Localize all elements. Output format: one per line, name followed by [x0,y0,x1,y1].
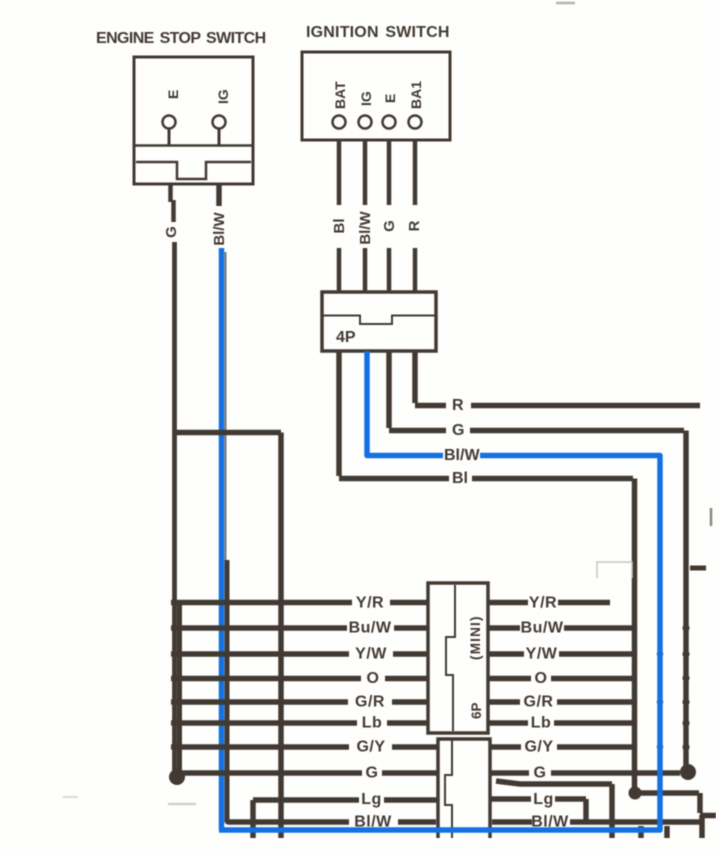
svg-text:G/Y: G/Y [524,739,553,756]
svg-text:BAT: BAT [332,81,348,109]
svg-text:Bl: Bl [331,219,348,234]
svg-text:G/Y: G/Y [356,739,385,756]
svg-text:E: E [165,90,181,99]
svg-text:Bl/W: Bl/W [531,814,569,831]
svg-text:Y/W: Y/W [355,646,387,663]
svg-text:Y/R: Y/R [356,595,384,612]
svg-text:6P: 6P [469,702,484,719]
svg-text:Bl/W: Bl/W [357,210,374,244]
svg-text:Lg: Lg [361,791,382,808]
svg-text:O: O [367,670,380,687]
svg-text:G: G [452,422,464,439]
svg-text:ENGINE STOP SWITCH: ENGINE STOP SWITCH [96,30,266,47]
svg-text:Bu/W: Bu/W [349,620,392,637]
svg-text:Bl: Bl [452,470,468,487]
svg-text:4P: 4P [336,329,356,346]
svg-text:R: R [452,397,464,414]
svg-text:Bl/W: Bl/W [211,211,228,245]
svg-text:G/R: G/R [355,694,385,711]
svg-text:(MINI): (MINI) [468,615,483,660]
svg-text:Bl/W: Bl/W [354,814,392,831]
svg-text:R: R [406,220,423,231]
svg-text:Lb: Lb [531,715,552,732]
svg-text:Lb: Lb [362,715,383,732]
svg-text:BA1: BA1 [408,81,424,109]
svg-text:G: G [366,765,379,782]
svg-text:O: O [535,670,548,687]
svg-text:Bl/W: Bl/W [444,447,480,464]
svg-text:Y/W: Y/W [526,646,558,663]
svg-text:IG: IG [358,91,374,106]
svg-text:Bu/W: Bu/W [521,620,564,637]
svg-text:E: E [382,94,398,103]
svg-text:IG: IG [215,89,231,104]
svg-text:G: G [163,226,180,238]
svg-text:G: G [534,765,547,782]
svg-text:G: G [381,220,398,232]
svg-text:IGNITION SWITCH: IGNITION SWITCH [306,24,450,41]
svg-text:G/R: G/R [524,694,554,711]
svg-text:Y/R: Y/R [529,595,557,612]
svg-text:Lg: Lg [533,791,554,808]
